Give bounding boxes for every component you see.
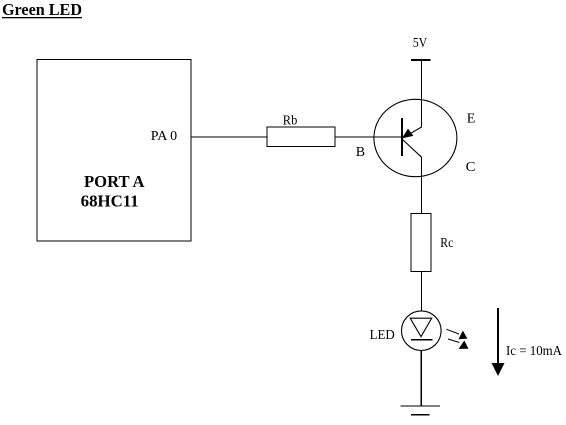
wire Rc to LED (421, 272, 423, 312)
svg-text:LED: LED (370, 327, 395, 342)
wire 5V to emitter (421, 60, 423, 128)
transistor Q1 emitter diagonal (403, 127, 422, 138)
LED light arrow 1 line (446, 329, 459, 334)
svg-text:5V: 5V (413, 36, 427, 51)
transistor Q1 body circle (374, 99, 457, 176)
wire LED to ground (420, 351, 422, 407)
LED light arrow 2 line (448, 339, 459, 343)
wire collector to Rc (421, 157, 423, 214)
svg-text:E: E (467, 111, 476, 126)
transistor Q1 collector diagonal (402, 139, 422, 157)
svg-text:PORT A: PORT A (84, 172, 145, 191)
resistor Rc (411, 214, 431, 272)
LED light arrow 1 head (459, 331, 468, 340)
resistor Rb (267, 127, 335, 147)
wire Rb to base (335, 136, 403, 138)
title Green LED (2, 0, 82, 19)
LED D1 body circle (402, 311, 442, 351)
svg-text:C: C (466, 160, 476, 175)
svg-text:PA 0: PA 0 (151, 128, 178, 143)
LED D1 cathode bar (411, 339, 433, 341)
svg-text:B: B (356, 145, 365, 160)
svg-text:68HC11: 68HC11 (81, 191, 139, 210)
LED D1 anode triangle (410, 318, 432, 337)
svg-text:Rc: Rc (440, 236, 453, 251)
current arrow Ic line (497, 308, 499, 364)
transistor Q1 emitter arrowhead (402, 129, 414, 139)
5V rail tick (411, 59, 431, 61)
LED light arrow 2 head (459, 341, 469, 349)
current arrow Ic head (492, 363, 505, 376)
IC box U1 PORT A 68HC11 (37, 60, 191, 242)
ground bar 2 (411, 414, 429, 416)
svg-text:Green LED: Green LED (2, 0, 82, 19)
wire PA0 to Rb (191, 136, 267, 138)
svg-text:Rb: Rb (283, 114, 298, 129)
svg-text:Ic = 10mA: Ic = 10mA (506, 344, 563, 359)
ground bar 1 (401, 405, 440, 407)
transistor Q1 base bar (401, 118, 403, 156)
